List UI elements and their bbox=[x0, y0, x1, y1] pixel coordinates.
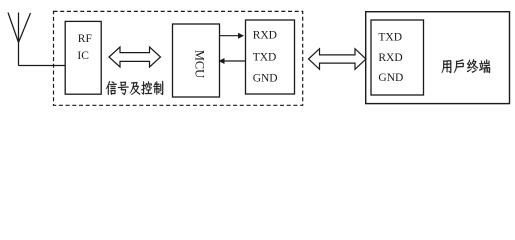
double arrow module to terminal bbox=[309, 49, 367, 70]
svg-text:MCU: MCU bbox=[192, 50, 206, 78]
block MCU U1 bbox=[173, 24, 220, 97]
arrow TXD to MCU bbox=[219, 58, 247, 64]
svg-text:RXD: RXD bbox=[253, 30, 277, 42]
dashed RF module boundary bbox=[54, 11, 303, 105]
pin labels RXD TXD GND bbox=[253, 30, 278, 85]
svg-text:GND: GND bbox=[253, 73, 278, 85]
label 信号及控制 (signal and control) bbox=[106, 81, 163, 95]
svg-text:TXD: TXD bbox=[253, 51, 277, 63]
block user terminal bbox=[366, 12, 510, 104]
wire antenna to RF IC bbox=[19, 65, 66, 67]
block terminal pins TXD RXD GND bbox=[371, 20, 424, 95]
pin labels TXD RXD GND bbox=[378, 32, 403, 84]
label RF IC bbox=[77, 33, 91, 62]
antenna bbox=[8, 13, 31, 66]
block RF IC bbox=[65, 21, 101, 94]
svg-text:IC: IC bbox=[77, 50, 89, 62]
arrow MCU to RXD bbox=[220, 33, 245, 39]
svg-text:RXD: RXD bbox=[378, 52, 402, 64]
block serial pins RXD TXD GND bbox=[246, 20, 295, 94]
svg-text:TXD: TXD bbox=[378, 32, 402, 44]
double arrow RF IC to MCU bbox=[109, 47, 161, 67]
label 用户终端 (user terminal) bbox=[442, 59, 491, 73]
svg-text:GND: GND bbox=[378, 72, 403, 84]
svg-text:RF: RF bbox=[78, 33, 92, 45]
